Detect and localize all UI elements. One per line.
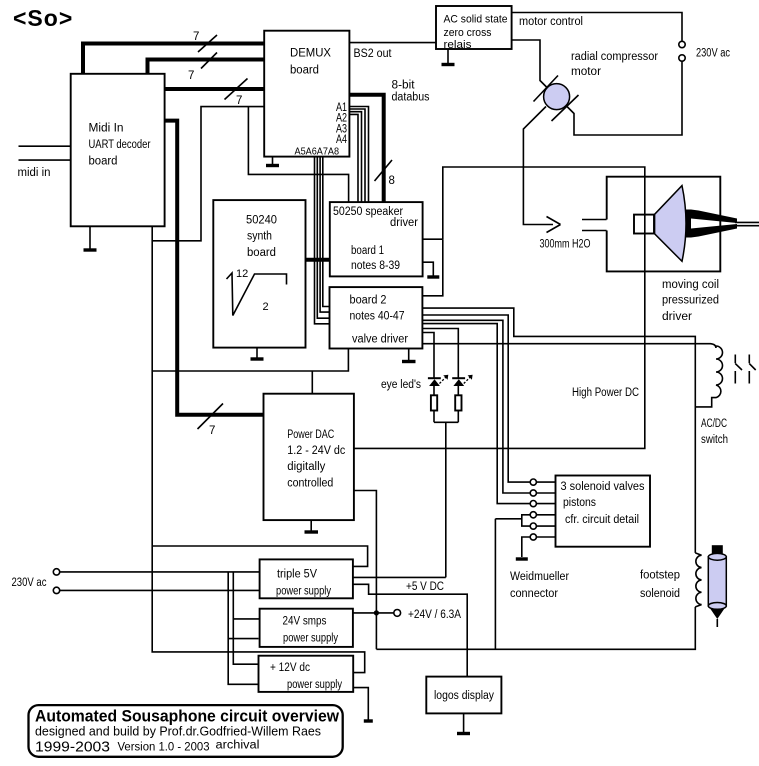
svg-text:controlled: controlled [287, 477, 333, 489]
wire relais-to-motor [512, 40, 548, 88]
ground under logos display [457, 713, 470, 733]
ground under board2 [402, 349, 416, 362]
speaker phase plug dark horn [686, 210, 759, 238]
node valve connector pin 6 [530, 534, 555, 540]
wire A4 demux-to-board1 [349, 114, 358, 203]
wire 230V L1 to supplies [60, 571, 260, 573]
block PS1 triple 5V power supply [260, 559, 353, 598]
svg-text:+ 12V dc: + 12V dc [270, 662, 310, 674]
svg-text:Weidmueller: Weidmueller [510, 571, 569, 583]
node 230V ac lower-left terminal 1 [53, 569, 59, 575]
wire board2 out5 to eye led 2 [422, 329, 458, 378]
ground under synth board [251, 348, 264, 359]
svg-text:7: 7 [188, 70, 194, 82]
wire motor-to-air-inlet with arrow [523, 107, 590, 251]
node 230V ac terminal bottom [679, 48, 730, 62]
title box [29, 705, 343, 757]
wire A1 demux-to-board1 [349, 107, 368, 204]
wire synth-to-board1 thick link [304, 258, 332, 262]
svg-text:triple 5V: triple 5V [277, 569, 317, 581]
wire through magnet [644, 215, 646, 234]
ground stub board1 right [423, 262, 440, 277]
svg-text:driver: driver [662, 311, 692, 323]
wire A3 demux-to-board1 [349, 112, 361, 203]
wire A7 demux-to-board2 [320, 157, 330, 313]
node +24V terminal [394, 609, 461, 621]
wire feed through driver box [644, 177, 646, 272]
svg-text:+24V / 6.3A: +24V / 6.3A [408, 609, 461, 621]
wire midi in line 1 [19, 145, 71, 147]
wire 230V return to motor [566, 61, 682, 135]
svg-text:synth: synth [247, 231, 272, 243]
wire midi in line 2 [18, 160, 71, 179]
svg-text:midi in: midi in [18, 167, 51, 179]
wire trunk branch to board2 bottom [152, 349, 348, 372]
wire mains feed V2 [228, 572, 258, 684]
svg-text:1.2 - 24V dc: 1.2 - 24V dc [287, 445, 345, 457]
svg-text:board 1: board 1 [351, 245, 384, 257]
wire trunk branch to triple5V [152, 546, 367, 566]
svg-text:board: board [247, 247, 276, 259]
svg-text:cfr. circuit detail: cfr. circuit detail [565, 514, 639, 526]
svg-text:motor control: motor control [519, 16, 583, 28]
block U3 AC solid state zero cross relais [436, 6, 512, 51]
svg-text:Power DAC: Power DAC [287, 429, 334, 441]
ground under relais [442, 49, 455, 65]
svg-text:3 solenoid valves: 3 solenoid valves [561, 481, 645, 493]
wire +24V output [353, 612, 394, 614]
svg-text:power supply: power supply [276, 586, 331, 598]
block U4 50240 synth board [213, 200, 305, 348]
svg-text:24V smps: 24V smps [283, 616, 327, 628]
wire 5V second output to logos display [353, 584, 467, 676]
led D1 eye led [428, 375, 448, 386]
svg-text:A4: A4 [336, 134, 347, 146]
wire 12V output to ground [353, 688, 373, 721]
wire A6 demux-to-board2 [317, 157, 330, 319]
svg-text:driver: driver [390, 217, 418, 229]
svg-text:archival: archival [216, 740, 260, 752]
svg-text:notes 8-39: notes 8-39 [351, 260, 400, 272]
wire AC/DC loop to footstep coil and 24V rail [376, 607, 695, 649]
motor M1 radial compressor [534, 51, 659, 121]
svg-text:+5 V DC: +5 V DC [406, 581, 444, 593]
wire logic rail left trunk [152, 226, 365, 672]
speaker U2 box moving coil driver [607, 177, 721, 272]
svg-text:1999-2003: 1999-2003 [35, 740, 110, 756]
svg-text:50240: 50240 [246, 215, 277, 227]
svg-text:Automated Sousaphone circuit o: Automated Sousaphone circuit overview [35, 708, 339, 726]
wire BS2 out demux-to-relais [349, 43, 436, 60]
symbol 12th root of 2 [227, 268, 287, 316]
wire motor control relais-to-230V [512, 13, 682, 42]
svg-text:50250 speaker: 50250 speaker [333, 206, 403, 218]
svg-text:moving coil: moving coil [662, 279, 719, 291]
svg-text:radial compressor: radial compressor [571, 51, 658, 63]
block PS3 +12V dc power supply [259, 656, 354, 692]
wire board1-to-board2 right link [422, 239, 442, 296]
wire mains feed V1 [233, 572, 259, 664]
svg-text:230V ac: 230V ac [696, 48, 730, 60]
svg-text:7: 7 [209, 425, 215, 437]
ground under demux board [266, 157, 279, 166]
wire A8 demux-to-board2 [323, 157, 330, 307]
block U9 logos display [426, 677, 501, 714]
svg-text:logos display: logos display [434, 690, 494, 702]
wire 7-bus midi-to-demux second (bus2) [148, 53, 265, 83]
wire A5 demux-to-board2 [315, 157, 331, 324]
wire Weidmueller connector drop to 24V rail [494, 519, 496, 650]
block U1 Midi In UART decoder board [71, 74, 165, 227]
block U5 50250 speaker driver board 1 [330, 202, 423, 276]
svg-text:notes 40-47: notes 40-47 [350, 310, 405, 322]
node valve connector pin 4 [530, 512, 555, 518]
ground under PowerDAC [305, 520, 319, 532]
wire board2 out1 to AC/DC switch loop [422, 308, 695, 553]
svg-text:230V ac: 230V ac [12, 577, 47, 589]
node valve connector pin 2 [530, 490, 555, 496]
svg-text:7: 7 [236, 95, 242, 107]
svg-text:eye led's: eye led's [381, 379, 421, 391]
svg-text:motor: motor [571, 66, 601, 78]
svg-text:300mm H2O: 300mm H2O [540, 239, 591, 251]
wire 7-bus midi-to-PowerDAC [165, 121, 265, 437]
label moving coil pressurized driver [662, 279, 719, 323]
svg-text:valve driver: valve driver [352, 333, 408, 345]
wire Weidmueller bracket pins 4-5 [495, 515, 530, 526]
wire PowerDAC top feed [311, 371, 313, 394]
node valve connector pin 1 [530, 479, 555, 485]
wire 7-bus midi-to-demux third (bus3) [165, 79, 264, 108]
block U6 board 2 valve driver [330, 287, 423, 348]
wire led join to +5V [434, 422, 458, 577]
svg-text:switch: switch [701, 434, 728, 446]
wire air gap stub top [582, 219, 607, 221]
wire PowerDAC 24V supply rail [354, 491, 376, 650]
wire 230V L2 to supplies [60, 589, 260, 591]
svg-text:power supply: power supply [287, 679, 342, 691]
svg-text:BS2 out: BS2 out [354, 48, 393, 60]
inductor L1 AC/DC switch coil feed [422, 344, 716, 348]
svg-text:AC/DC: AC/DC [701, 418, 727, 430]
svg-text:databus: databus [392, 92, 430, 104]
wire demux stub branch to board1 [248, 107, 348, 203]
wire board2 out2 to valve connector 1 [422, 315, 530, 482]
svg-text:digitally: digitally [287, 461, 325, 473]
wire 7-bus midi-to-demux top (bus1) [83, 31, 264, 74]
svg-text:board: board [290, 65, 319, 77]
svg-text:Midi In: Midi In [89, 123, 124, 135]
svg-text:8-bit: 8-bit [392, 80, 416, 92]
wire 8-bit databus demux-to-board1 [349, 80, 429, 204]
svg-text:board: board [89, 156, 118, 168]
svg-text:<So>: <So> [13, 5, 73, 31]
ground pin6 [516, 537, 530, 559]
svg-text:Version 1.0 - 2003: Version 1.0 - 2003 [118, 742, 210, 754]
svg-text:solenoid: solenoid [640, 588, 680, 600]
svg-text:A5A6A7A8: A5A6A7A8 [295, 146, 340, 158]
svg-text:AC solid state: AC solid state [444, 14, 508, 26]
wire board2 out6 to eye led 1 [422, 333, 434, 378]
node 230V ac lower-left terminal 2 [12, 577, 60, 594]
block U7 Power DAC [264, 394, 354, 520]
wire board2 out4 to valve connector 3 [422, 324, 530, 504]
block PS2 24V smps power supply [260, 609, 353, 647]
svg-text:connector: connector [510, 588, 558, 600]
label Weidmueller connector [510, 571, 569, 600]
ground under midi board [84, 226, 97, 250]
block U2 DEMUX board [264, 31, 349, 158]
resistor R2 [455, 386, 461, 422]
block U8 3 solenoid valves pistons [556, 476, 651, 547]
wire A2 demux-to-board1 [349, 109, 365, 203]
svg-text:pressurized: pressurized [662, 295, 719, 307]
node valve connector pin 5 [530, 523, 555, 529]
svg-text:designed and build by Prof.dr.: designed and build by Prof.dr.Godfried-W… [35, 725, 321, 739]
footstep solenoid plunger [708, 545, 726, 627]
inductor L1 AC/DC switch coil [695, 346, 722, 407]
speaker cone [655, 186, 686, 262]
led D2 eye led [452, 375, 472, 386]
svg-text:8: 8 [389, 175, 395, 187]
wire air gap stub bottom [582, 230, 607, 232]
label footstep solenoid [640, 570, 680, 601]
svg-text:2: 2 [263, 301, 269, 313]
svg-text:footstep: footstep [640, 570, 680, 582]
node junction dot 24V [374, 610, 379, 615]
svg-text:UART decoder: UART decoder [89, 139, 151, 151]
svg-text:DEMUX: DEMUX [290, 48, 331, 60]
svg-text:pistons: pistons [563, 497, 596, 509]
svg-text:High Power DC: High Power DC [572, 387, 639, 399]
speaker magnet [634, 215, 654, 234]
switch S2 [749, 355, 755, 384]
node 230V ac terminal top [679, 41, 685, 47]
wire board1-to-speaker and High-Power-DC horizontal [354, 167, 645, 448]
node valve connector pin 3 [530, 501, 555, 507]
svg-text:board 2: board 2 [350, 294, 387, 306]
label AC/DC switch [701, 418, 728, 446]
svg-text:power supply: power supply [283, 633, 338, 645]
wire board2 out3 to valve connector 2 [422, 320, 530, 493]
inductor L2 footstep solenoid coil [695, 553, 701, 607]
wire +5V output [353, 577, 446, 593]
svg-text:7: 7 [193, 31, 199, 43]
resistor R1 [431, 386, 437, 422]
switch S1 [735, 355, 742, 384]
svg-text:12: 12 [236, 268, 248, 280]
wire demux left stub to logic rail [152, 107, 264, 241]
svg-text:zero cross: zero cross [444, 27, 492, 39]
